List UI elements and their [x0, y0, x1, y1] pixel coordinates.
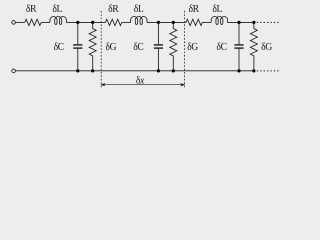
- wire top: [41, 21, 50, 23]
- capacitor δC section 1: [73, 22, 82, 70]
- resistor δR section 2: [105, 19, 121, 25]
- capacitor δC section 3: [234, 22, 243, 70]
- value label δC: [134, 42, 144, 50]
- value label δG: [262, 42, 272, 50]
- node dot cap top 2: [157, 21, 160, 24]
- wire bottom dotted continuation: [257, 70, 281, 72]
- node dot cap top 3: [237, 21, 240, 24]
- node dot G bottom 2: [172, 69, 175, 72]
- value label δR: [189, 4, 199, 12]
- value label δR: [26, 4, 36, 12]
- resistor δR section 3: [186, 19, 202, 25]
- value label δC: [54, 42, 64, 50]
- resistor δG (shunt conductance) section 2: [170, 22, 177, 70]
- value label δG: [106, 42, 116, 50]
- value label δL: [134, 4, 143, 12]
- section boundary dashed line: [100, 11, 102, 89]
- node dot cap bottom 2: [157, 69, 160, 72]
- wire top: [228, 21, 255, 23]
- value label δL: [53, 4, 62, 12]
- node dot G bottom 3: [252, 69, 255, 72]
- node dot cap bottom 3: [237, 69, 240, 72]
- terminal bottom-left: [12, 69, 16, 73]
- node dot G top 2: [172, 21, 175, 24]
- dimension arrow dx: [100, 83, 185, 86]
- value label δR: [109, 4, 119, 12]
- node dot G bottom 1: [91, 69, 94, 72]
- inductor δL section 2: [131, 16, 147, 24]
- inductor δL section 1: [50, 16, 66, 24]
- resistor δG (shunt conductance) section 1: [89, 22, 96, 70]
- value label δG: [188, 42, 198, 50]
- node dot cap top 1: [76, 21, 79, 24]
- value label δL: [213, 4, 222, 12]
- wire top: [202, 21, 211, 23]
- node dot G top 1: [91, 21, 94, 24]
- capacitor δC section 2: [154, 22, 163, 70]
- wire bottom: [16, 70, 255, 72]
- node dot G top 3: [252, 21, 255, 24]
- terminal top-left: [12, 21, 16, 25]
- wire top dotted continuation: [257, 21, 281, 23]
- wire top: [147, 21, 186, 23]
- wire top: [16, 21, 25, 23]
- node dot cap bottom 1: [76, 69, 79, 72]
- section boundary dashed line: [184, 11, 186, 89]
- inductor δL section 3: [211, 16, 227, 24]
- resistor δG (shunt conductance) section 3: [250, 22, 257, 70]
- wire top: [66, 21, 105, 23]
- value label δC: [217, 42, 227, 50]
- dimension label δx: [136, 76, 144, 84]
- wire top: [122, 21, 131, 23]
- resistor δR section 1: [25, 19, 41, 25]
